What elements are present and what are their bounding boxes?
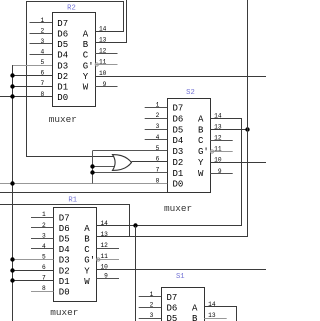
svg-text:D0: D0 [59, 287, 70, 297]
svg-text:4: 4 [42, 243, 46, 250]
svg-text:D2: D2 [173, 158, 184, 168]
svg-text:D2: D2 [59, 266, 70, 276]
svg-text:W: W [83, 82, 89, 92]
svg-text:D3: D3 [57, 61, 68, 71]
svg-text:D4: D4 [59, 245, 70, 255]
svg-text:3: 3 [156, 123, 160, 130]
svg-text:9: 9 [104, 273, 108, 280]
svg-text:D3: D3 [59, 256, 70, 266]
svg-text:D7: D7 [59, 213, 70, 223]
svg-text:D5: D5 [59, 235, 70, 245]
svg-text:D3: D3 [173, 147, 184, 157]
svg-text:W: W [84, 277, 90, 287]
svg-text:9: 9 [103, 81, 107, 88]
svg-text:D5: D5 [167, 314, 178, 321]
svg-text:12: 12 [100, 242, 108, 249]
svg-text:R1: R1 [68, 196, 77, 204]
svg-text:11: 11 [214, 146, 222, 153]
svg-text:11: 11 [99, 59, 107, 66]
svg-text:B: B [192, 314, 198, 321]
svg-text:A: A [192, 304, 198, 314]
svg-text:D4: D4 [173, 136, 184, 146]
svg-text:D6: D6 [167, 304, 178, 314]
svg-text:1: 1 [42, 211, 46, 218]
svg-text:G': G' [84, 256, 95, 266]
svg-text:D5: D5 [57, 40, 68, 50]
svg-text:C: C [83, 51, 89, 61]
svg-text:2: 2 [40, 27, 44, 34]
svg-text:3: 3 [40, 38, 44, 45]
svg-text:D6: D6 [173, 114, 184, 124]
svg-text:C: C [84, 245, 90, 255]
svg-text:11: 11 [100, 253, 108, 260]
svg-text:D1: D1 [173, 169, 184, 179]
svg-text:S2: S2 [186, 89, 195, 97]
svg-text:D7: D7 [57, 19, 68, 29]
svg-text:8: 8 [42, 285, 46, 292]
svg-text:2: 2 [156, 112, 160, 119]
svg-text:D2: D2 [57, 72, 68, 82]
svg-text:D0: D0 [57, 93, 68, 103]
svg-text:1: 1 [40, 17, 44, 24]
svg-text:4: 4 [156, 134, 160, 141]
svg-text:9: 9 [218, 168, 222, 175]
svg-text:D6: D6 [57, 30, 68, 40]
svg-text:D0: D0 [173, 180, 184, 190]
svg-text:A: A [83, 30, 89, 40]
svg-text:B: B [198, 125, 204, 135]
svg-text:muxer: muxer [164, 203, 192, 214]
svg-text:A: A [198, 114, 204, 124]
svg-text:A: A [84, 224, 90, 234]
svg-text:12: 12 [99, 48, 107, 55]
svg-text:S1: S1 [176, 273, 185, 281]
svg-text:12: 12 [214, 135, 222, 142]
svg-text:B: B [83, 40, 89, 50]
svg-text:13: 13 [208, 312, 216, 319]
svg-text:G': G' [83, 61, 94, 71]
svg-text:D1: D1 [57, 82, 68, 92]
svg-text:D5: D5 [173, 125, 184, 135]
svg-text:1: 1 [156, 101, 160, 108]
svg-text:4: 4 [40, 49, 44, 56]
svg-text:W: W [198, 169, 204, 179]
svg-text:D1: D1 [59, 277, 70, 287]
svg-text:muxer: muxer [49, 114, 77, 125]
svg-text:3: 3 [42, 232, 46, 239]
svg-text:D6: D6 [59, 224, 70, 234]
svg-text:C: C [198, 136, 204, 146]
svg-text:D7: D7 [173, 104, 184, 114]
svg-text:R2: R2 [67, 5, 76, 13]
svg-text:Y: Y [83, 72, 89, 82]
svg-text:2: 2 [42, 222, 46, 229]
svg-text:G': G' [198, 147, 209, 157]
svg-text:Y: Y [84, 266, 90, 276]
svg-text:muxer: muxer [50, 307, 78, 318]
svg-text:D4: D4 [57, 51, 68, 61]
svg-text:2: 2 [150, 301, 154, 308]
svg-text:Y: Y [198, 158, 204, 168]
svg-text:B: B [84, 235, 90, 245]
svg-text:D7: D7 [167, 293, 178, 303]
svg-text:3: 3 [150, 312, 154, 319]
svg-text:1: 1 [150, 291, 154, 298]
